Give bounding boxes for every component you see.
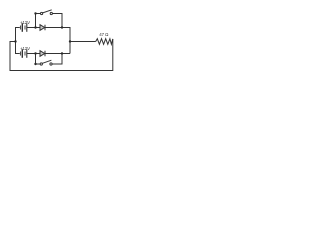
svg-text:+12V: +12V	[20, 20, 30, 25]
svg-text:47 Ω: 47 Ω	[99, 32, 109, 37]
svg-text:+12V: +12V	[20, 46, 30, 51]
